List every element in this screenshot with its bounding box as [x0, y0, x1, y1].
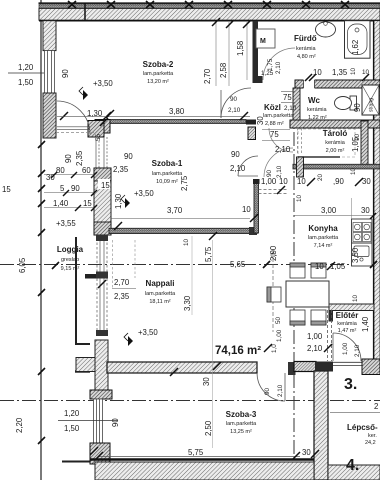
- svg-text:90: 90: [61, 69, 70, 78]
- svg-text:lam.parketta: lam.parketta: [152, 171, 183, 177]
- staircase wall vertical: [314, 371, 328, 480]
- wall Szoba-1 / Nappali (thin): [109, 228, 257, 233]
- svg-text:+3,50: +3,50: [93, 79, 113, 88]
- svg-text:10: 10: [350, 167, 357, 175]
- door arc Szoba-3: [257, 373, 285, 401]
- svg-text:1,00: 1,00: [342, 342, 349, 355]
- room label Közl: [263, 103, 297, 127]
- svg-text:4.: 4.: [346, 457, 359, 474]
- axis line horizontal y265 dash-dot: [0, 264, 378, 266]
- bottom wall line: [90, 458, 314, 461]
- insulated post: [248, 127, 256, 140]
- wall end block left: [95, 120, 110, 134]
- svg-text:M: M: [260, 38, 266, 45]
- svg-text:2,88 m²: 2,88 m²: [265, 121, 284, 127]
- svg-text:2,70: 2,70: [203, 68, 212, 84]
- Szoba-1 left wall: upper block: [88, 121, 104, 138]
- svg-text:10: 10: [315, 262, 324, 271]
- svg-text:10: 10: [352, 294, 359, 302]
- Tároló right wall: [361, 121, 368, 165]
- svg-text:Szoba-2: Szoba-2: [143, 60, 174, 69]
- svg-text:1,20: 1,20: [18, 63, 34, 72]
- axis line left vertical: [40, 0, 42, 480]
- svg-text:1,05: 1,05: [330, 262, 346, 271]
- svg-text:1,00: 1,00: [307, 332, 323, 341]
- door dashes Tároló: [297, 128, 299, 155]
- svg-text:1,0: 1,0: [271, 344, 278, 353]
- Nappali west lower wall pier: [95, 340, 108, 399]
- Loggia lower parapet line: [75, 370, 90, 372]
- wire dashed vertical near table: [272, 252, 274, 332]
- svg-text:2,00 m²: 2,00 m²: [326, 148, 345, 154]
- svg-text:75: 75: [283, 93, 292, 102]
- svg-text:1,50: 1,50: [64, 424, 80, 433]
- svg-text:90: 90: [71, 184, 80, 193]
- svg-text:1,58: 1,58: [236, 41, 245, 56]
- svg-text:15: 15: [2, 185, 11, 194]
- joint line top wall: [84, 3, 86, 21]
- svg-text:1,05: 1,05: [351, 136, 360, 152]
- svg-text:kerámia: kerámia: [296, 46, 317, 52]
- dim line 3,70: [111, 218, 250, 220]
- wall end block right (Szoba-1/Nappali): [249, 227, 257, 235]
- svg-text:13,20 m²: 13,20 m²: [147, 79, 169, 85]
- door arc Szoba-2 left (Loggia door): [57, 101, 90, 134]
- washing machine M: [256, 29, 275, 48]
- axis line vertical x294 dash-dot: [293, 88, 295, 480]
- Szoba-1 right wall lower (thin): [254, 180, 259, 233]
- dims 2,70 2,35 Nappali window: [112, 278, 136, 301]
- svg-text:Szoba-3: Szoba-3: [226, 410, 257, 419]
- room label Szoba-1: [152, 159, 183, 185]
- svg-text:30: 30: [361, 206, 370, 215]
- wall stub Tároló left: [297, 157, 304, 177]
- svg-text:10: 10: [242, 205, 251, 214]
- room label Szoba-3: [226, 410, 257, 435]
- svg-text:3,70: 3,70: [167, 206, 183, 215]
- entry right wall block: [362, 359, 380, 375]
- sink: [354, 246, 369, 257]
- threshold Közl-Nappali opening: [259, 189, 288, 191]
- door arc Közl lower: [264, 148, 293, 177]
- svg-text:kerámia: kerámia: [325, 140, 346, 146]
- svg-text:6,05: 6,05: [18, 257, 27, 273]
- dim row under Tároló 10 20 90 30: [297, 173, 371, 186]
- entry door arc: [333, 333, 361, 361]
- room label Fürdő: [294, 34, 317, 60]
- door arc Szoba-1: [238, 156, 258, 176]
- room label Tároló: [323, 129, 348, 154]
- svg-text:2,35: 2,35: [114, 292, 130, 301]
- svg-text:1,62: 1,62: [351, 40, 360, 55]
- svg-text:lam.parketta: lam.parketta: [143, 71, 174, 77]
- Fürdő wall foot block: [253, 76, 263, 83]
- svg-text:Előtér: Előtér: [336, 311, 359, 320]
- dining table: [286, 281, 329, 307]
- svg-text:90: 90: [231, 150, 240, 159]
- svg-text:1,00: 1,00: [261, 177, 277, 186]
- svg-text:5: 5: [60, 184, 65, 193]
- svg-text:2,10: 2,10: [277, 384, 284, 397]
- svg-text:30: 30: [202, 377, 211, 386]
- kitchen counter: [352, 219, 373, 266]
- extension lines Nappali: [212, 240, 214, 448]
- Wc bottom wall: [290, 120, 380, 128]
- svg-text:Loggia: Loggia: [57, 245, 84, 254]
- svg-text:2,10: 2,10: [354, 344, 361, 357]
- svg-text:90: 90: [64, 154, 73, 163]
- stair tread line: [330, 412, 380, 414]
- svg-text:Lépcső-: Lépcső-: [347, 423, 378, 432]
- Szoba-1 left wall lower band: [94, 168, 111, 235]
- svg-text:74,16 m²: 74,16 m²: [215, 345, 261, 357]
- svg-text:30: 30: [362, 177, 371, 186]
- Előtér top wall: [329, 304, 374, 311]
- svg-text:10,09 m²: 10,09 m²: [156, 179, 178, 185]
- svg-text:90: 90: [111, 418, 120, 427]
- svg-text:5,65: 5,65: [230, 260, 246, 269]
- door arc Szoba-2 (bottom of niche): [221, 88, 251, 118]
- svg-text:2,58: 2,58: [219, 63, 228, 78]
- svg-text:+3,55: +3,55: [56, 219, 76, 228]
- room label Szoba-2: [143, 60, 174, 85]
- svg-text:90: 90: [124, 152, 133, 161]
- top wall inner line: [39, 20, 380, 22]
- svg-text:lam.parketta: lam.parketta: [145, 291, 176, 297]
- svg-text:kerámia: kerámia: [337, 321, 358, 327]
- chairs: [267, 263, 326, 325]
- svg-text:Nappali: Nappali: [146, 279, 175, 288]
- svg-text:3,80: 3,80: [169, 107, 185, 116]
- svg-text:2,70: 2,70: [114, 278, 130, 287]
- svg-text:Közl: Közl: [264, 103, 281, 112]
- svg-text:1,40: 1,40: [361, 316, 370, 332]
- svg-text:1,47 m²: 1,47 m²: [338, 328, 357, 334]
- Előtér left partition dashed: [327, 310, 329, 361]
- svg-text:lam.parketta: lam.parketta: [263, 113, 294, 119]
- room label Nappali: [145, 279, 176, 305]
- svg-text:2: 2: [374, 402, 378, 411]
- dim 75 Wc upper: [281, 92, 295, 103]
- svg-text:10: 10: [297, 177, 306, 186]
- svg-text:4,80 m²: 4,80 m²: [297, 54, 316, 60]
- Loggia bottom edge: [76, 343, 90, 345]
- top wall insulation strip: [39, 4, 380, 8]
- extension lines niche: [216, 22, 247, 86]
- svg-text:2,35: 2,35: [75, 150, 84, 166]
- svg-text:Fürdő: Fürdő: [294, 34, 317, 43]
- svg-text:lam.parketta: lam.parketta: [308, 235, 339, 241]
- top wall masonry band: [39, 8, 380, 20]
- svg-text:+3,50: +3,50: [138, 328, 158, 337]
- svg-text:2,10: 2,10: [275, 61, 282, 74]
- washbasin: [316, 22, 336, 37]
- svg-text:2,50: 2,50: [204, 420, 213, 436]
- dim row Fürdő 10 1,35 10: [313, 67, 370, 77]
- svg-text:90: 90: [264, 387, 271, 395]
- svg-text:+3,50: +3,50: [134, 189, 154, 198]
- svg-text:ker.: ker.: [368, 433, 377, 439]
- svg-text:18,11 m²: 18,11 m²: [149, 299, 170, 305]
- wall end bar right: [246, 120, 256, 125]
- svg-text:3,00: 3,00: [321, 206, 337, 215]
- svg-text:5,75: 5,75: [188, 448, 204, 457]
- tick marks left axis: [38, 141, 377, 444]
- svg-text:13,25 m²: 13,25 m²: [230, 429, 252, 435]
- Wc left wall: [293, 88, 300, 120]
- strang shaft: [362, 85, 379, 115]
- window left Szoba-2: [45, 51, 55, 94]
- svg-text:greslap: greslap: [61, 257, 79, 263]
- Loggia outer edge line: [75, 237, 77, 345]
- svg-text:15: 15: [83, 199, 92, 208]
- svg-text:,90: ,90: [333, 177, 345, 186]
- svg-text:1,35: 1,35: [332, 68, 348, 77]
- svg-text:90: 90: [266, 169, 273, 177]
- room label Előtér: [336, 311, 359, 334]
- Loggia glazing band (Nappali west window-wall): [97, 238, 107, 336]
- svg-text:Tároló: Tároló: [323, 129, 348, 138]
- toilet Wc: [335, 96, 357, 110]
- svg-text:90: 90: [353, 103, 362, 112]
- door arc Közl-Wc: [269, 128, 293, 152]
- svg-text:9,15 m²: 9,15 m²: [61, 266, 80, 272]
- svg-text:60: 60: [82, 166, 91, 175]
- svg-text:1,50: 1,50: [18, 78, 34, 87]
- svg-text:2,35: 2,35: [113, 165, 129, 174]
- Fürdő door arc: [263, 48, 295, 80]
- svg-text:2,10: 2,10: [228, 107, 241, 114]
- level +3,50 Nappali: [124, 328, 158, 346]
- svg-text:50: 50: [275, 316, 282, 324]
- dim 1,20/1,50 top-left: [8, 63, 44, 87]
- svg-text:1,00: 1,00: [276, 329, 283, 342]
- svg-text:24,2: 24,2: [365, 440, 376, 446]
- svg-text:5,75: 5,75: [204, 246, 213, 262]
- svg-text:30: 30: [302, 448, 311, 457]
- dims Szoba-1 left cluster: [2, 133, 133, 209]
- svg-text:80: 80: [56, 166, 65, 175]
- svg-text:3.: 3.: [344, 376, 357, 393]
- Szoba-3 bottom-left pier: [90, 443, 110, 464]
- room label Loggia: [57, 245, 84, 272]
- svg-text:1,20: 1,20: [64, 409, 80, 418]
- svg-text:10: 10: [279, 177, 288, 186]
- bottom wall hatch band: [95, 462, 314, 480]
- svg-text:2,10: 2,10: [275, 145, 291, 154]
- svg-text:1,25: 1,25: [261, 70, 274, 77]
- svg-text:strang: strang: [369, 98, 375, 112]
- svg-text:1,40: 1,40: [53, 199, 69, 208]
- svg-text:Konyha: Konyha: [308, 224, 338, 233]
- room label Wc: [307, 96, 328, 121]
- room label Konyha: [308, 224, 339, 249]
- level +3,50 Szoba-1: [121, 189, 154, 208]
- Szoba-3 window left: [94, 399, 103, 443]
- wall Szoba-2 / Szoba-1 partition (thin): [95, 120, 246, 124]
- svg-text:2,20: 2,20: [15, 417, 24, 433]
- wall Nappali / Szoba-3: [107, 362, 257, 373]
- entry wall with hatch block: [294, 362, 316, 372]
- window Szoba-1 left: [96, 137, 107, 168]
- door post Szoba-3: [288, 362, 296, 375]
- room label Lépcső: [347, 423, 378, 446]
- Fürdő bottom wall / Wc top wall: [295, 80, 380, 88]
- stove burners: [353, 223, 362, 232]
- level +3,50 Szoba-2: [79, 79, 113, 100]
- svg-text:15: 15: [101, 181, 110, 190]
- svg-text:55: 55: [95, 133, 102, 141]
- axis line horizontal y400 dash-dot: [0, 400, 380, 402]
- svg-text:Wc: Wc: [308, 96, 321, 105]
- svg-text:2,10: 2,10: [307, 344, 323, 353]
- dims 1,20 1,50 bottom-left: [58, 409, 118, 433]
- svg-text:30: 30: [256, 116, 265, 125]
- svg-text:7,14 m²: 7,14 m²: [314, 243, 333, 249]
- outlet symbol: [271, 253, 275, 257]
- svg-text:Szoba-1: Szoba-1: [152, 159, 183, 168]
- extension dashes Nappali dims: [112, 240, 114, 288]
- svg-text:3,30: 3,30: [183, 295, 192, 311]
- svg-text:90: 90: [230, 96, 238, 103]
- Fürdő left wall: [253, 21, 259, 79]
- svg-text:10: 10: [350, 67, 357, 75]
- svg-text:20: 20: [317, 173, 324, 181]
- insulation X markers: [68, 1, 349, 8]
- svg-text:2,10: 2,10: [284, 105, 297, 112]
- svg-text:2,10: 2,10: [230, 164, 246, 173]
- left exterior wall upper (Szoba-2): [43, 21, 56, 51]
- svg-text:1,30: 1,30: [114, 193, 123, 209]
- wall Loggia bottom band: [76, 358, 107, 372]
- svg-text:2,75: 2,75: [180, 175, 189, 191]
- svg-text:10: 10: [183, 238, 190, 246]
- svg-text:1,22 m²: 1,22 m²: [308, 115, 327, 121]
- glazing frame posts: [96, 235, 108, 241]
- Tároló bottom wall (thin): [293, 164, 380, 169]
- left wall pier below window: [43, 93, 56, 138]
- svg-text:10: 10: [296, 194, 303, 202]
- svg-text:3,50: 3,50: [351, 247, 360, 263]
- dim 75 Wc door: [262, 130, 290, 141]
- top exterior wall outer line: [39, 2, 380, 4]
- svg-text:lam.parketta: lam.parketta: [226, 421, 257, 427]
- svg-text:2,90: 2,90: [269, 245, 278, 261]
- svg-text:75: 75: [270, 130, 279, 139]
- bathtub: [345, 21, 371, 59]
- right exterior wall hatch band: [374, 21, 380, 373]
- storage outline Tároló dashed: [298, 129, 355, 157]
- svg-text:kerámia: kerámia: [307, 107, 328, 113]
- tick marks top wall extension: [90, 18, 369, 458]
